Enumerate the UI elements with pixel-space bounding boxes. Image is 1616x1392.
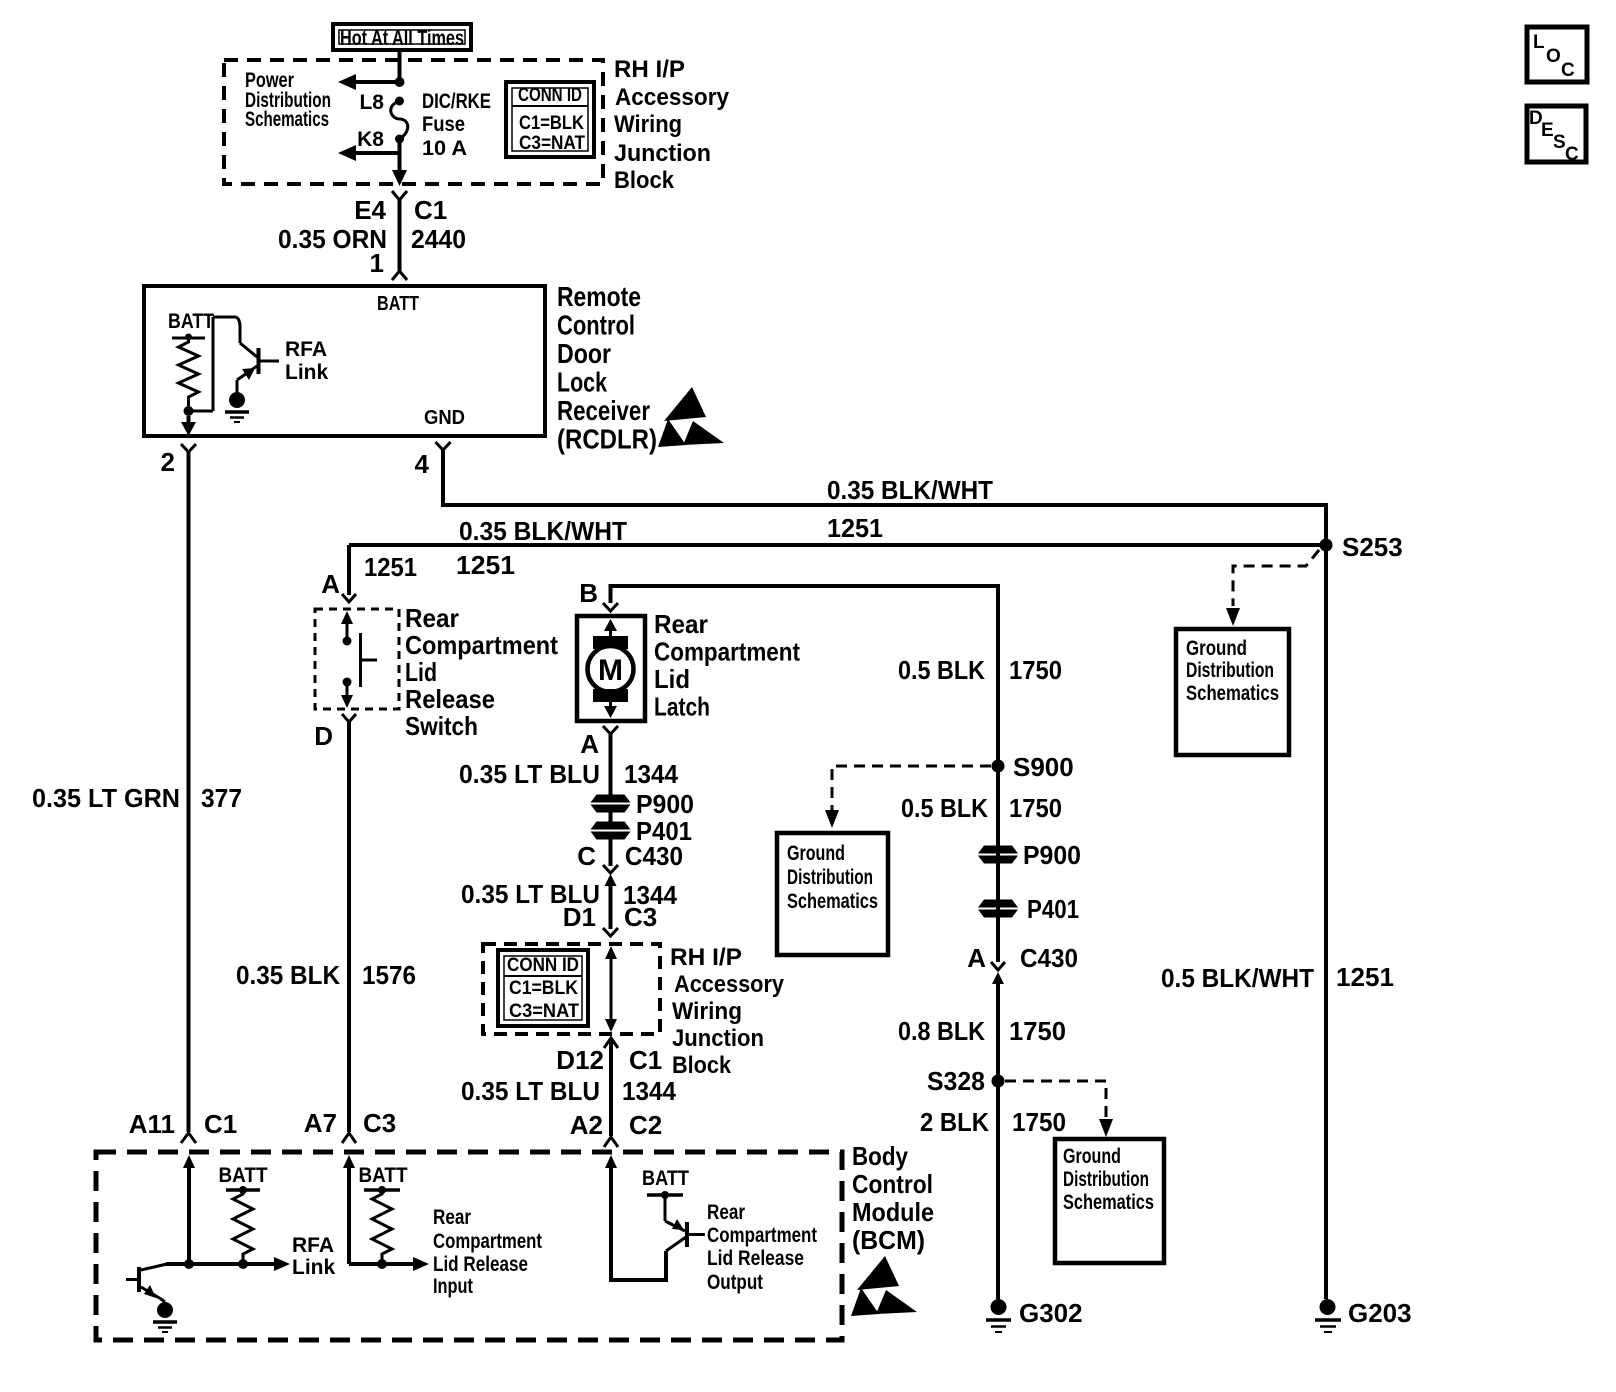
resistor (RCDLR internal pull-up): [172, 334, 205, 407]
svg-text:Schematics: Schematics: [1063, 1191, 1154, 1214]
wire rail with junctions and arrow to RFA Link: [166, 1257, 290, 1271]
svg-text:0.35 LT GRN: 0.35 LT GRN: [32, 783, 180, 813]
fuse DIC/RKE 10A: [391, 97, 408, 144]
svg-text:Schematics: Schematics: [245, 108, 329, 131]
svg-text:Ground: Ground: [1063, 1145, 1121, 1168]
svg-text:Door: Door: [557, 338, 611, 369]
wire: splice to switch pin A: [347, 545, 351, 595]
svg-text:BATT: BATT: [377, 293, 419, 315]
svg-text:Module: Module: [852, 1197, 934, 1227]
svg-text:1576: 1576: [362, 960, 416, 990]
connector C430 pin A (BLK): [967, 943, 1078, 984]
dashed reference link S900 to ground distribution: [825, 766, 991, 828]
svg-text:O: O: [1546, 46, 1561, 67]
svg-text:A2: A2: [570, 1110, 603, 1140]
wire: C430 to G302 (0.8 BLK / 2 BLK 1750): [996, 980, 1000, 1299]
node: Hot At All Times feed box: [333, 24, 471, 50]
wire: latch B up and over to 0.5 BLK chain: [611, 586, 999, 766]
svg-text:C3: C3: [363, 1108, 396, 1138]
note box: Ground Distribution Schematics (middle): [777, 833, 888, 955]
wire: S900 down (0.5 BLK 1750): [996, 766, 1000, 962]
svg-text:C3=NAT: C3=NAT: [509, 1001, 579, 1022]
wire: junction to transistor collector rail: [189, 317, 258, 411]
svg-text:Input: Input: [433, 1275, 473, 1298]
pass-through connector P401 (BLK): [978, 900, 1018, 918]
svg-text:Lock: Lock: [557, 367, 607, 398]
connector fork pin D: [342, 714, 356, 722]
svg-text:Fuse: Fuse: [422, 113, 465, 136]
svg-text:G203: G203: [1348, 1298, 1412, 1328]
svg-text:Control: Control: [557, 310, 635, 341]
CONN ID table (top): [506, 82, 594, 157]
label DIC/RKE Fuse 10 A: [422, 90, 491, 160]
connector fork pin A: [342, 594, 356, 602]
svg-text:0.35 BLK/WHT: 0.35 BLK/WHT: [459, 516, 627, 546]
svg-text:GND: GND: [424, 407, 465, 429]
svg-text:A: A: [580, 729, 599, 759]
svg-text:A: A: [967, 943, 986, 973]
svg-text:C: C: [577, 841, 596, 871]
svg-text:1344: 1344: [622, 1076, 677, 1106]
resistor (BCM branch 2): [364, 1186, 400, 1264]
svg-text:C2: C2: [629, 1110, 662, 1140]
pass-through connector P900 (LT BLU): [591, 795, 631, 813]
label Rear Compartment Lid Release Switch: [405, 603, 558, 741]
svg-text:Distribution: Distribution: [1063, 1168, 1149, 1191]
svg-text:0.8 BLK: 0.8 BLK: [898, 1016, 985, 1046]
svg-text:Hot At All Times: Hot At All Times: [340, 27, 464, 50]
svg-text:K8: K8: [357, 128, 384, 151]
svg-text:Accessory: Accessory: [615, 84, 730, 111]
svg-text:Schematics: Schematics: [787, 890, 878, 913]
svg-text:C1=BLK: C1=BLK: [519, 113, 584, 134]
label Body Control Module (BCM): [852, 1141, 934, 1255]
ESD sensitivity symbol (RCDLR): [658, 387, 724, 447]
svg-text:Lid: Lid: [405, 657, 437, 687]
svg-text:L: L: [1533, 32, 1545, 53]
wire down to box edge with arrowhead: [392, 153, 407, 186]
svg-text:Junction: Junction: [672, 1025, 764, 1052]
svg-text:1: 1: [370, 248, 384, 278]
svg-text:M: M: [598, 654, 623, 687]
svg-text:C: C: [1561, 60, 1575, 81]
wire rail with junction and arrow to Lid Release Input: [349, 1257, 429, 1271]
svg-text:Lid: Lid: [654, 664, 690, 694]
resistor (BCM branch 1): [226, 1186, 260, 1264]
connector fork pin B: [603, 603, 618, 611]
svg-text:E4: E4: [354, 195, 386, 225]
svg-text:2440: 2440: [411, 224, 466, 254]
svg-text:Latch: Latch: [654, 692, 710, 722]
svg-text:Release: Release: [405, 684, 495, 714]
splice S900: [992, 760, 1005, 773]
svg-text:Control: Control: [852, 1169, 933, 1199]
connector C430 pin C: [577, 841, 683, 929]
BCM dashed box: [96, 1152, 842, 1340]
motor symbol: [588, 619, 634, 718]
label Remote Control Door Lock Receiver (RCDLR): [557, 281, 657, 455]
svg-text:Switch: Switch: [405, 711, 478, 741]
svg-text:E: E: [1541, 120, 1554, 141]
svg-text:S900: S900: [1013, 752, 1074, 782]
svg-text:Wiring: Wiring: [672, 998, 742, 1025]
svg-text:Rear: Rear: [654, 609, 708, 639]
connector A7 fork: [342, 1133, 356, 1143]
BCM pin A7 entry arrow: [343, 1155, 355, 1264]
ground G302: [986, 1298, 1083, 1332]
svg-text:C1: C1: [629, 1045, 662, 1075]
svg-text:C3: C3: [624, 902, 657, 932]
svg-text:CONN ID: CONN ID: [507, 955, 579, 976]
label Rear Compartment Lid Release Input: [433, 1206, 542, 1298]
svg-text:D12: D12: [556, 1045, 604, 1075]
svg-text:Lid Release: Lid Release: [707, 1247, 804, 1270]
rear compartment lid release switch (dashed box): [315, 609, 399, 709]
RH I/P junction block dashed box (power distribution): [224, 60, 603, 184]
pass-through connector P401 (LT BLU): [591, 822, 631, 840]
svg-text:Distribution: Distribution: [787, 866, 873, 889]
svg-text:Wiring: Wiring: [614, 111, 682, 138]
svg-text:Ground: Ground: [787, 842, 845, 865]
svg-text:B: B: [579, 578, 598, 608]
svg-text:Remote: Remote: [557, 281, 641, 312]
svg-text:0.35 BLK: 0.35 BLK: [236, 960, 340, 990]
transistor (BCM branch 1): [126, 1264, 167, 1302]
LOC reference box: [1527, 27, 1587, 82]
transistor (BCM branch 3, lid release output): [647, 1191, 705, 1251]
svg-text:Distribution: Distribution: [1186, 659, 1274, 682]
svg-text:P401: P401: [1027, 894, 1079, 924]
svg-text:Junction: Junction: [614, 140, 711, 167]
wire: latch A down (0.35 LT BLU 1344): [609, 733, 613, 795]
svg-text:Block: Block: [672, 1052, 732, 1079]
label Rear Compartment Lid Latch: [654, 609, 800, 722]
svg-text:BATT: BATT: [359, 1164, 408, 1187]
svg-text:Compartment: Compartment: [433, 1230, 542, 1253]
svg-text:0.35 LT BLU: 0.35 LT BLU: [461, 1076, 600, 1106]
svg-text:0.5 BLK/WHT: 0.5 BLK/WHT: [1161, 963, 1314, 993]
label Rear Compartment Lid Release Output: [707, 1201, 817, 1294]
connector fork latch pin A: [580, 726, 618, 759]
svg-text:1251: 1251: [456, 550, 515, 580]
dashed reference link S328 to ground distribution: [1005, 1081, 1113, 1137]
svg-text:Link: Link: [285, 361, 328, 384]
wire: switch D to BCM A7 (0.35 BLK 1576): [347, 721, 351, 1132]
svg-text:CONN ID: CONN ID: [518, 85, 582, 106]
CONN ID table (lower): [498, 950, 588, 1026]
svg-text:2 BLK: 2 BLK: [920, 1107, 989, 1137]
svg-text:Rear: Rear: [405, 603, 459, 633]
ground G203: [1315, 1298, 1412, 1332]
wire: pin 4 GND to S253 (0.35 BLK/WHT 1251): [443, 450, 1328, 545]
dashed reference link S253 to ground distribution: [1226, 550, 1319, 626]
svg-text:Ground: Ground: [1186, 637, 1247, 660]
svg-text:P900: P900: [1023, 840, 1081, 870]
svg-text:RFA: RFA: [292, 1234, 334, 1257]
svg-text:A7: A7: [304, 1108, 337, 1138]
svg-text:C3=NAT: C3=NAT: [519, 133, 585, 154]
svg-text:1251: 1251: [827, 513, 883, 543]
junction dot (resistor bottom): [184, 406, 194, 416]
svg-text:C1: C1: [414, 195, 447, 225]
svg-text:C1=BLK: C1=BLK: [509, 978, 578, 999]
svg-text:BATT: BATT: [642, 1167, 689, 1190]
note box: Ground Distribution Schematics (lower): [1055, 1139, 1164, 1263]
svg-text:S: S: [1553, 132, 1566, 153]
wire: junction block to BCM A2 (0.35 LT BLU 1344): [609, 1040, 613, 1136]
svg-text:10 A: 10 A: [422, 137, 467, 160]
svg-text:1750: 1750: [1009, 655, 1062, 685]
BCM pin A11 entry arrow: [183, 1155, 195, 1264]
wire: pin 2 to BCM A11 (0.35 LT GRN 377): [187, 452, 191, 1132]
svg-text:377: 377: [201, 783, 242, 813]
svg-text:Rear: Rear: [707, 1201, 745, 1224]
junction dot at fuse top feed: [395, 77, 405, 87]
BCM pin A2 entry arrow: [605, 1155, 666, 1280]
connector pin 2: [181, 444, 196, 452]
connector fork D1: [603, 928, 618, 936]
wire: [609, 812, 613, 822]
svg-text:RFA: RFA: [285, 338, 327, 361]
svg-text:Lid Release: Lid Release: [433, 1253, 528, 1276]
svg-text:A: A: [321, 569, 340, 599]
wire: S253 down to G203 (0.5 BLK/WHT 1251): [1324, 545, 1328, 1299]
connector pin 4: [436, 442, 451, 450]
svg-text:Receiver: Receiver: [557, 395, 650, 426]
svg-text:C1: C1: [204, 1109, 237, 1139]
svg-text:1251: 1251: [364, 552, 417, 582]
svg-text:0.35 BLK/WHT: 0.35 BLK/WHT: [827, 475, 993, 505]
svg-text:S253: S253: [1342, 532, 1403, 562]
DESC reference box: [1527, 106, 1586, 165]
svg-text:1344: 1344: [624, 759, 679, 789]
svg-text:C430: C430: [1020, 943, 1078, 973]
connector fork D12: [604, 1038, 618, 1048]
svg-text:0.5 BLK: 0.5 BLK: [901, 793, 988, 823]
transistor (RFA link driver, RCDLR): [237, 348, 279, 393]
svg-text:0.35 LT BLU: 0.35 LT BLU: [459, 759, 600, 789]
splice S253: [1320, 539, 1333, 552]
svg-text:1750: 1750: [1009, 793, 1062, 823]
svg-text:1750: 1750: [1009, 1016, 1066, 1046]
connector A2 fork: [604, 1137, 618, 1147]
svg-text:1750: 1750: [1012, 1107, 1066, 1137]
svg-text:BATT: BATT: [168, 310, 214, 333]
svg-text:Compartment: Compartment: [707, 1224, 817, 1247]
svg-text:(BCM): (BCM): [852, 1225, 925, 1255]
svg-text:4: 4: [415, 449, 430, 479]
svg-text:RH I/P: RH I/P: [670, 944, 742, 971]
rear compartment lid latch motor box: [577, 616, 645, 721]
wire: splice branch to switch (0.35 BLK/WHT 1251): [349, 543, 1326, 547]
svg-text:A11: A11: [129, 1109, 175, 1139]
svg-text:P900: P900: [636, 789, 694, 819]
svg-text:C: C: [1565, 144, 1579, 165]
svg-text:Accessory: Accessory: [674, 971, 785, 998]
label RH I/P Accessory Wiring Junction Block (lower): [670, 944, 785, 1079]
svg-text:1251: 1251: [1336, 962, 1394, 992]
svg-text:BATT: BATT: [219, 1164, 268, 1187]
connector A11 fork: [181, 1133, 196, 1143]
splice S328: [992, 1075, 1005, 1088]
svg-text:DIC/RKE: DIC/RKE: [422, 90, 491, 113]
switch contacts: [341, 611, 377, 708]
svg-text:Output: Output: [707, 1271, 763, 1294]
ESD sensitivity symbol (BCM): [851, 1256, 917, 1316]
wire through junction block with arrows: [605, 946, 617, 1032]
ground (BCM branch 1): [153, 1302, 177, 1332]
pass-through connector P900 (BLK): [978, 846, 1018, 864]
note box: Ground Distribution Schematics (upper right): [1176, 629, 1289, 755]
svg-text:(RCDLR): (RCDLR): [557, 424, 657, 455]
svg-text:Compartment: Compartment: [405, 630, 558, 660]
svg-text:Block: Block: [614, 167, 675, 194]
ground (RCDLR internal): [225, 392, 249, 422]
wire arrow to Power Distribution Schematics (upper): [338, 74, 400, 90]
svg-text:S328: S328: [927, 1066, 985, 1096]
svg-text:Compartment: Compartment: [654, 637, 800, 667]
svg-text:D: D: [314, 721, 333, 751]
svg-text:2: 2: [161, 447, 175, 477]
wire arrow to Power Distribution Schematics (lower): [338, 139, 400, 161]
wire arrow down to pin 2: [181, 416, 196, 436]
svg-text:D1: D1: [563, 902, 596, 932]
svg-text:0.5 BLK: 0.5 BLK: [898, 655, 985, 685]
svg-text:RH I/P: RH I/P: [614, 56, 685, 83]
wire: feed from Hot At All Times down: [398, 50, 402, 82]
svg-text:Schematics: Schematics: [1186, 682, 1279, 705]
svg-text:Body: Body: [852, 1141, 908, 1171]
label Power Distribution Schematics: [245, 69, 331, 131]
svg-text:L8: L8: [359, 91, 384, 114]
label RH I/P Accessory Wiring Junction Block (top): [614, 56, 730, 194]
wire: [609, 839, 613, 866]
svg-text:G302: G302: [1019, 1298, 1083, 1328]
svg-text:C430: C430: [625, 841, 683, 871]
svg-text:Link: Link: [292, 1256, 335, 1279]
connector C1 (junction block to RCDLR), pin E4: [392, 191, 407, 280]
RCDLR module box: [144, 286, 545, 436]
svg-text:Rear: Rear: [433, 1206, 471, 1229]
RH I/P accessory wiring junction block (dashed, lower): [483, 944, 660, 1034]
